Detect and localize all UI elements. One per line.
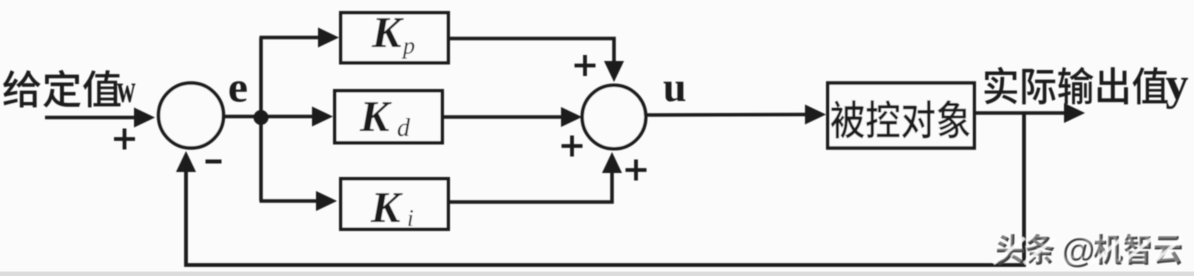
block plant 被控对象 (828, 83, 975, 148)
label output 实际输出值y (985, 67, 1188, 109)
bottom scan band (0, 272, 1194, 276)
label Ki (371, 193, 413, 226)
label 被控对象 (831, 100, 970, 138)
node junction e (254, 110, 269, 125)
block Kd (335, 91, 443, 143)
wire node to Kd (266, 115, 315, 119)
watermark 头条@机智云 (997, 234, 1182, 268)
summing junction S2 (582, 85, 646, 149)
wire plant output (974, 111, 1066, 115)
label Kd (360, 102, 410, 136)
label e (230, 81, 247, 102)
wire S1 to node (222, 115, 262, 119)
wire node to Ki (260, 199, 320, 203)
plus sign top of S2 (575, 55, 596, 76)
plus sign bottom of S2 (626, 160, 647, 181)
plus sign left of S2 (562, 136, 583, 157)
label u (664, 82, 686, 102)
label Kp (372, 18, 415, 58)
wire Kd to S2 (442, 115, 564, 119)
minus sign at feedback input (206, 160, 222, 164)
block Ki (341, 179, 449, 230)
wire Kp to S2 (448, 39, 614, 64)
block Kp (341, 13, 449, 63)
plus sign at input (114, 129, 135, 150)
wire branch vertical (259, 38, 263, 202)
wire input w (45, 116, 137, 120)
wire feedback loop (186, 113, 1024, 265)
label setpoint 给定值w (3, 70, 135, 108)
summing junction S1 (159, 83, 224, 148)
wire to Kp (260, 36, 322, 40)
wire Ki to S2 (448, 172, 612, 202)
wire S2 to plant (646, 113, 808, 117)
